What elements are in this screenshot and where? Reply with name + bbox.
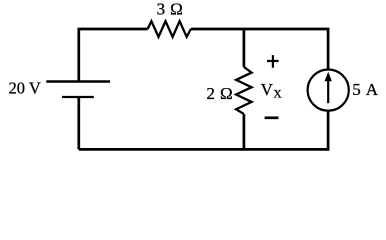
svg-text:2 Ω: 2 Ω (206, 84, 233, 103)
current source arrow (327, 79, 329, 103)
wire top-right segment (191, 28, 330, 31)
plus sign (267, 55, 279, 68)
wire middle branch upper (243, 29, 246, 67)
battery V1 top plate (46, 80, 110, 82)
battery V1 bottom plate (62, 96, 94, 98)
current source I1 circle (308, 70, 349, 111)
svg-text:5 A: 5 A (352, 80, 379, 99)
svg-text:X: X (273, 88, 282, 100)
wire left branch lower (77, 97, 80, 149)
wire right branch lower (327, 111, 330, 150)
wire right branch upper (327, 29, 330, 70)
svg-text:V: V (261, 80, 274, 99)
wire top-left segment (79, 29, 148, 82)
svg-text:20 V: 20 V (9, 78, 41, 97)
wire middle branch lower (243, 114, 246, 149)
svg-text:3 Ω: 3 Ω (157, 0, 184, 18)
resistor R1 3ohm zigzag (148, 21, 191, 37)
resistor R2 2ohm zigzag (236, 67, 252, 114)
wire bottom (79, 148, 330, 151)
minus sign (265, 116, 279, 119)
